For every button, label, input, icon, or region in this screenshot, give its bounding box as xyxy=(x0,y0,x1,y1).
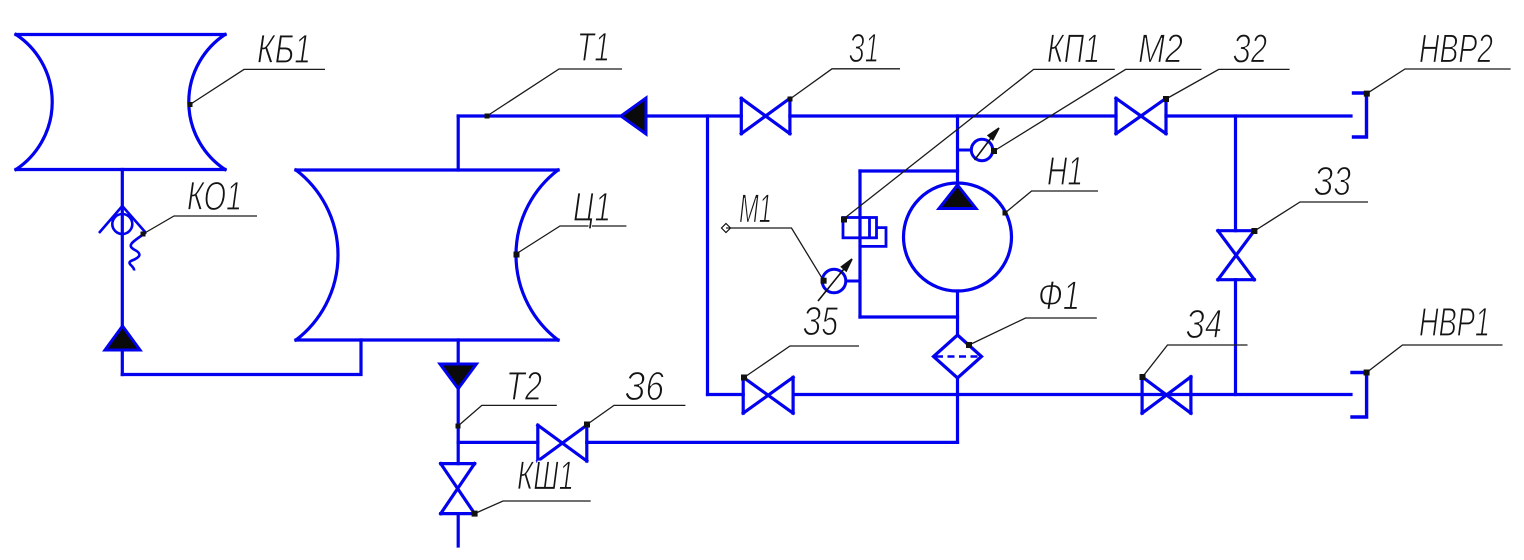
svg-text:Ц1: Ц1 xyxy=(573,184,611,230)
svg-text:Т2: Т2 xyxy=(506,363,542,409)
svg-text:КО1: КО1 xyxy=(187,173,242,219)
svg-text:З5: З5 xyxy=(803,298,838,344)
svg-text:З1: З1 xyxy=(849,25,879,71)
svg-text:КШ1: КШ1 xyxy=(517,453,574,499)
svg-text:М1: М1 xyxy=(739,186,772,232)
svg-text:КП1: КП1 xyxy=(1047,26,1100,72)
svg-text:М2: М2 xyxy=(1138,26,1183,72)
svg-text:Т1: Т1 xyxy=(577,24,610,70)
svg-text:НВР1: НВР1 xyxy=(1419,299,1490,345)
svg-text:КБ1: КБ1 xyxy=(257,26,311,72)
svg-text:З4: З4 xyxy=(1186,301,1222,347)
svg-text:НВР2: НВР2 xyxy=(1419,26,1493,72)
svg-text:З2: З2 xyxy=(1233,26,1267,72)
svg-text:Н1: Н1 xyxy=(1047,148,1083,194)
svg-text:З3: З3 xyxy=(1314,158,1351,204)
svg-text:Ф1: Ф1 xyxy=(1038,273,1080,319)
svg-text:З6: З6 xyxy=(625,363,664,409)
